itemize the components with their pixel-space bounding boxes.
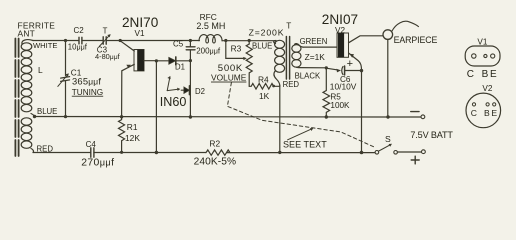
wire: junction down to D2 and mid rail	[189, 61, 191, 117]
svg-text:10μμf: 10μμf	[68, 43, 88, 52]
minus sign	[411, 111, 419, 113]
diode D2 (1N60)	[181, 86, 189, 95]
node: V1 base / D1 anode junction	[155, 59, 158, 62]
svg-text:1K: 1K	[259, 91, 270, 101]
svg-text:S: S	[385, 134, 391, 144]
resistor R4 1K	[249, 84, 280, 90]
node: R3 wiper tie junction	[224, 39, 227, 42]
transformer T core	[286, 37, 289, 80]
svg-text:365μμf: 365μμf	[72, 76, 101, 87]
V2 pin holes C, B, E	[472, 103, 475, 106]
svg-text:V1: V1	[477, 37, 487, 46]
antenna coil L (lower section, BLUE to RED)	[21, 118, 33, 153]
resistor R2 240K-5%	[206, 150, 230, 155]
svg-text:R4: R4	[258, 74, 269, 84]
svg-text:RED: RED	[37, 144, 54, 153]
node: V1 emitter / R1 top on mid rail	[120, 115, 123, 118]
V1 base lead	[144, 60, 156, 62]
node: D2 cathode on mid rail	[189, 115, 192, 118]
svg-text:C4: C4	[86, 140, 97, 149]
node: earpiece return / minus lead junction	[386, 115, 389, 118]
wire: choke to R3 top	[222, 40, 276, 42]
svg-text:C2: C2	[74, 26, 85, 35]
wire: GREEN lead to V2 base	[303, 46, 337, 48]
svg-text:D1: D1	[175, 62, 185, 71]
V1 collector lead	[120, 41, 134, 51]
capacitor C4 270uuf	[91, 148, 94, 157]
V2 emitter lead with arrow	[349, 53, 362, 153]
node: C5 / D1 / D2 junction	[189, 59, 192, 62]
svg-text:RED: RED	[283, 80, 300, 89]
svg-text:C: C	[471, 108, 477, 118]
switch S blade	[378, 145, 390, 151]
plus sign	[411, 156, 419, 164]
svg-text:T: T	[103, 27, 108, 36]
wire: C4 to R2	[94, 152, 206, 154]
wire: earpiece down to minus node	[387, 39, 389, 117]
resistor R5 100K	[323, 68, 330, 117]
svg-text:TUNING: TUNING	[72, 88, 103, 97]
svg-text:V2: V2	[482, 84, 492, 93]
svg-text:Z=1K: Z=1K	[305, 52, 326, 62]
node: R4 / RED lead corner	[272, 85, 275, 88]
dashed mechanical linkage R3 to S	[227, 83, 374, 148]
svg-text:C: C	[467, 69, 474, 80]
resistor R1 12K	[119, 117, 125, 153]
svg-text:2.5 MH: 2.5 MH	[196, 21, 225, 31]
svg-text:ANT: ANT	[18, 29, 36, 39]
ferrite core of antenna coil	[15, 39, 18, 157]
svg-text:VOLUME: VOLUME	[211, 73, 247, 83]
earpiece cord arc	[392, 21, 419, 31]
svg-text:E: E	[491, 108, 497, 118]
variable capacitor C1 (tuning)	[58, 41, 70, 118]
svg-text:2NI70: 2NI70	[122, 15, 159, 30]
svg-text:D2: D2	[195, 87, 205, 96]
svg-text:B: B	[482, 69, 489, 80]
svg-text:R3: R3	[231, 43, 242, 53]
svg-text:WHITE: WHITE	[33, 41, 57, 50]
wire: switch to battery plus terminal	[397, 151, 421, 153]
node: base-return wire on bottom rail	[155, 151, 158, 154]
svg-text:R2: R2	[209, 138, 220, 148]
svg-text:270μμf: 270μμf	[81, 157, 114, 168]
node: transformer primary return on bottom rail	[278, 151, 281, 154]
capacitor C2	[79, 37, 82, 44]
trimmer capacitor C3	[103, 37, 106, 44]
svg-text:EARPIECE: EARPIECE	[394, 35, 438, 45]
svg-text:IN60: IN60	[160, 95, 187, 109]
node: R1 bottom on bottom rail	[120, 151, 123, 154]
wire: C2 to C3	[82, 40, 103, 42]
node: C6 / V2 emitter junction	[360, 69, 363, 72]
svg-text:BLACK: BLACK	[295, 71, 321, 80]
transformer T primary winding (Z=200K)	[274, 40, 285, 85]
wire: mid rail (BLUE tap to battery minus)	[35, 116, 422, 119]
svg-text:BLUE: BLUE	[37, 107, 57, 116]
wire: RED junction down to bottom rail (crosses mid rail)	[279, 86, 281, 153]
svg-text:+: +	[347, 58, 353, 70]
potentiometer R3 500K volume	[226, 41, 252, 87]
R3 wiper arm tied to top rail	[226, 41, 244, 59]
node: R5 bottom on mid rail	[325, 115, 328, 118]
wire: base junction down to bottom rail (crosses mid rail)	[155, 61, 157, 153]
node: C1 top junction	[64, 39, 67, 42]
wire: top rail from coil to C2	[33, 40, 79, 42]
wire: C3 to V1 collector node	[106, 40, 199, 42]
svg-text:100K: 100K	[330, 101, 350, 110]
svg-text:7.5V BATT: 7.5V BATT	[410, 130, 453, 140]
wire: bottom rail RED tap to C4	[33, 152, 91, 154]
svg-text:SEE TEXT: SEE TEXT	[283, 139, 327, 149]
battery minus terminal	[421, 115, 425, 119]
node: C5 top junction	[189, 39, 192, 42]
svg-text:C5: C5	[173, 40, 184, 49]
IN60 pointer arrows	[167, 76, 180, 91]
svg-text:Z=200K: Z=200K	[249, 28, 285, 38]
wire: R2 to switch contact	[227, 152, 375, 154]
svg-text:4-80μμf: 4-80μμf	[95, 52, 121, 61]
switch S contact 1	[375, 151, 379, 155]
svg-text:2NI07: 2NI07	[322, 12, 358, 27]
pin diagram V1 package outline	[465, 46, 500, 66]
svg-text:10/10V: 10/10V	[330, 81, 357, 91]
svg-text:GREEN: GREEN	[300, 37, 328, 46]
svg-text:BLUE: BLUE	[252, 41, 272, 50]
svg-text:L: L	[38, 65, 43, 75]
V1 emitter lead with arrow	[122, 64, 135, 117]
V1 pin holes C, B, E	[472, 54, 476, 58]
svg-text:B: B	[484, 108, 490, 118]
transistor V2 (2N107)	[337, 33, 383, 153]
svg-text:240K-5%: 240K-5%	[194, 157, 237, 168]
antenna coil L (upper section, WHITE to BLUE)	[21, 40, 34, 117]
svg-text:V1: V1	[135, 29, 145, 38]
transistor V1 (2N170)	[120, 41, 156, 117]
svg-text:T: T	[286, 21, 291, 30]
svg-text:E: E	[490, 69, 497, 80]
battery plus terminal	[422, 150, 426, 154]
node: V2 emitter on bottom rail	[360, 151, 364, 155]
node: BLACK lead / R5 top junction	[325, 66, 328, 69]
pin diagram V2 package outline	[466, 93, 501, 128]
capacitor C5	[186, 41, 195, 61]
svg-text:R1: R1	[127, 122, 138, 132]
transformer T secondary winding (Z=1K)	[292, 44, 327, 68]
node: C1 bottom on mid rail	[64, 115, 67, 118]
SEE TEXT pointer arrow	[288, 129, 311, 140]
node: V1 collector junction	[119, 39, 122, 42]
node: R3 top junction	[248, 39, 251, 42]
svg-text:200μμf: 200μμf	[196, 47, 221, 56]
diode D1 (1N60)	[156, 57, 190, 65]
node: BLUE tap	[33, 115, 36, 118]
electrolytic capacitor C6 10/10V	[326, 66, 361, 75]
RFC choke 2.5MH	[199, 35, 222, 43]
svg-text:12K: 12K	[125, 133, 140, 143]
V2 collector lead to earpiece	[349, 36, 384, 43]
earpiece jack terminal	[383, 30, 393, 40]
switch S contact 2	[394, 151, 398, 155]
svg-text:V2: V2	[335, 26, 345, 35]
